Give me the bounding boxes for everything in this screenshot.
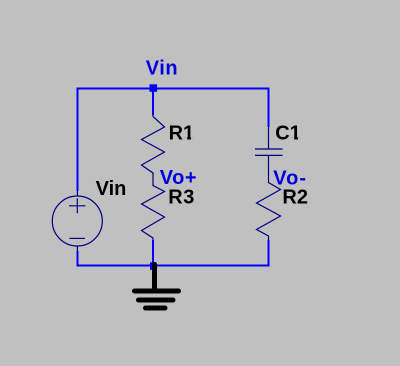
wire middle vertical (node Vin to R1): [152, 88, 154, 116]
svg-text:Vin: Vin: [146, 57, 178, 79]
resistor R2: [257, 182, 281, 241]
wire middle vertical (R3 to bottom node): [152, 240, 154, 266]
svg-text:R3: R3: [168, 186, 195, 208]
wire left vertical (bottom of source): [77, 251, 79, 267]
capacitor C1: [255, 127, 283, 171]
resistor R3: [142, 185, 165, 241]
wire node Vo+ (R1 to R3 lead): [152, 174, 154, 186]
svg-text:R2: R2: [282, 186, 308, 208]
wire bottom horizontal: [77, 265, 270, 267]
wire left vertical (top of source): [77, 88, 79, 192]
svg-text:Vin: Vin: [96, 178, 127, 200]
voltage source V1 (Vin): [52, 191, 102, 252]
wire node Vo- (C1 to R2 lead): [268, 170, 270, 183]
wire right vertical (top corner to C1): [268, 88, 270, 128]
svg-text:R1: R1: [169, 123, 195, 145]
wire top horizontal: [77, 88, 270, 90]
wire right vertical (R2 to bottom wire): [268, 240, 270, 267]
svg-text:C1: C1: [275, 123, 301, 145]
ground: [135, 265, 179, 309]
resistor R1: [142, 115, 165, 175]
node ground junction square: [150, 262, 157, 270]
node Vin junction square: [150, 84, 158, 92]
